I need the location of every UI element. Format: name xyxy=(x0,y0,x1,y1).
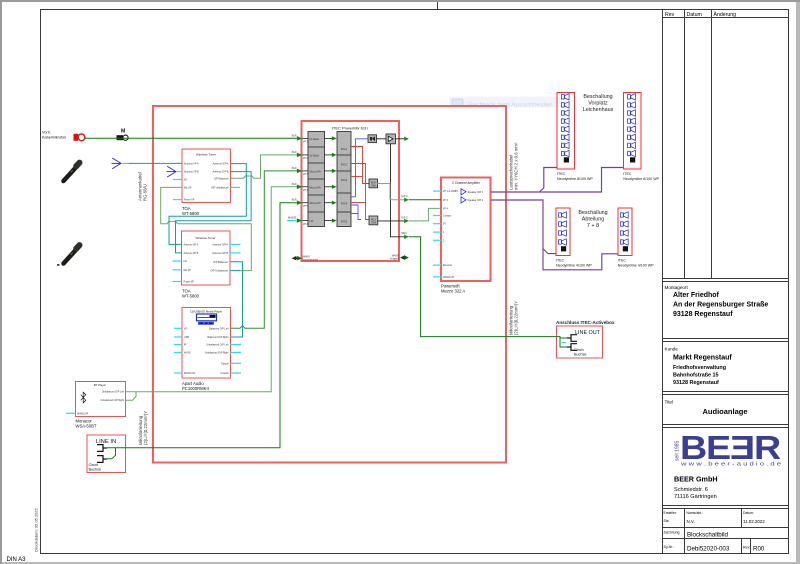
wire C to O/P2 xyxy=(378,184,405,200)
svg-text:MAINS: MAINS xyxy=(303,255,311,258)
svg-text:LINE OUT: LINE OUT xyxy=(575,330,601,336)
svg-text:XLR: XLR xyxy=(292,150,297,154)
svg-text:ITEC PowerMix 6/3 i: ITEC PowerMix 6/3 i xyxy=(332,126,369,131)
MAINS in double arrow xyxy=(294,257,300,259)
svg-text:BT Player: BT Player xyxy=(94,383,106,387)
speaker column LS3 xyxy=(556,208,570,256)
wireless microphone 2 xyxy=(64,245,80,263)
svg-text:Schmiedstr. 6: Schmiedstr. 6 xyxy=(674,487,708,493)
media player Apart box xyxy=(182,308,231,379)
svg-text:XLR: XLR xyxy=(292,133,297,137)
svg-text:Audioanlage: Audioanlage xyxy=(702,407,747,416)
svg-text:ITEC: ITEC xyxy=(556,259,565,263)
svg-text:Beschallung: Beschallung xyxy=(578,210,607,216)
wire speaker O/P1 branch to LS1 xyxy=(540,168,558,193)
svg-text:6x Radio: 6x Radio xyxy=(310,138,320,141)
svg-text:Ausgang: Ausgang xyxy=(390,258,400,261)
svg-text:(2)LiY(0,22mm²)Y: (2)LiY(0,22mm²)Y xyxy=(514,301,519,335)
svg-text:I/P 5: I/P 5 xyxy=(303,205,309,208)
svg-text:CD/USB/SD Media Player: CD/USB/SD Media Player xyxy=(190,310,222,314)
mains stub I/P6 xyxy=(287,220,297,222)
svg-text:Coaxial: Coaxial xyxy=(221,372,229,375)
tuner1 TOA WT-5800 box xyxy=(182,149,231,203)
wire cable mic to mixer I/P1 xyxy=(85,137,297,139)
svg-text:Mezzo 322 A: Mezzo 322 A xyxy=(441,289,465,294)
svg-text:R00: R00 xyxy=(753,546,765,553)
mixer block C RG out xyxy=(369,179,378,188)
svg-text:Beschallung: Beschallung xyxy=(583,94,612,100)
cinch jack 2 xyxy=(97,456,107,463)
svg-text:RG1: RG1 xyxy=(341,147,348,151)
antenna 2 xyxy=(167,166,177,177)
svg-text:Speaker O/P 2: Speaker O/P 2 xyxy=(468,199,484,202)
svg-text:Ersteller:: Ersteller: xyxy=(664,511,677,515)
wire tuner1 balanced to mixer I/P2 xyxy=(231,155,297,178)
svg-text:MAINS: MAINS xyxy=(392,254,400,257)
svg-text:Balanced O/P Left: Balanced O/P Left xyxy=(209,327,229,330)
antenna 2 feed xyxy=(176,171,182,173)
tuner2 TOA WT-5800 box xyxy=(182,231,231,285)
mixer input module column xyxy=(308,132,325,227)
svg-text:MicLinePh: MicLinePh xyxy=(310,170,322,173)
svg-text:ITEC: ITEC xyxy=(557,172,566,176)
svg-text:Contact: Contact xyxy=(443,215,452,218)
svg-text:RG2: RG2 xyxy=(341,163,348,167)
svg-text:93128 Regenstauf: 93128 Regenstauf xyxy=(673,311,733,318)
svg-text:Anschluss ITEC-Activebox: Anschluss ITEC-Activebox xyxy=(556,320,615,325)
fold mark top xyxy=(437,2,439,10)
svg-text:7 + 8: 7 + 8 xyxy=(587,223,599,229)
LINE IN cinch box xyxy=(87,435,126,473)
svg-text:75W: 75W xyxy=(371,221,377,224)
wire LINE IN to mixer I/P5 xyxy=(107,203,297,448)
svg-text:I/P 6: I/P 6 xyxy=(303,223,309,226)
BEER logo xyxy=(680,429,781,466)
svg-text:I/P 3: I/P 3 xyxy=(443,199,449,202)
wire antenna chain B xyxy=(176,172,252,253)
amp port labels xyxy=(443,190,484,279)
svg-text:O/P Balanced: O/P Balanced xyxy=(214,177,229,180)
svg-text:RG5: RG5 xyxy=(341,220,348,224)
mixer block A monitor xyxy=(368,135,377,143)
svg-text:Antenne I/P B: Antenne I/P B xyxy=(184,171,199,174)
svg-text:LIN: LIN xyxy=(310,220,314,223)
svg-text:Titel: Titel xyxy=(665,400,674,405)
speaker column LS1 xyxy=(557,93,575,170)
svg-text:O/P Unbalanced: O/P Unbalanced xyxy=(211,186,229,189)
svg-text:IR: IR xyxy=(184,344,187,347)
label Lautsprecherkabel xyxy=(509,142,519,190)
svg-text:Buchse: Buchse xyxy=(89,468,102,472)
svg-text:N.V.: N.V. xyxy=(687,519,695,524)
svg-text:Datum:: Datum: xyxy=(743,511,754,515)
MAINS out double arrow xyxy=(403,257,407,259)
svg-text:WT-5800: WT-5800 xyxy=(182,294,200,299)
svg-text:I/P 1: I/P 1 xyxy=(303,141,309,144)
svg-text:Netzanbindung: Netzanbindung xyxy=(303,259,319,262)
mixer block B master amp xyxy=(386,134,396,144)
wire B to O/P1 xyxy=(396,138,405,140)
antenna 1 xyxy=(112,158,122,169)
svg-text:O/P 2: O/P 2 xyxy=(401,194,408,198)
svg-text:Vorh.: Vorh. xyxy=(42,131,51,135)
mixer blue net xyxy=(351,139,368,220)
label Mikrofonleitung left xyxy=(138,411,148,445)
svg-text:Datum: Datum xyxy=(687,12,702,18)
svg-text:Montageort: Montageort xyxy=(665,285,689,290)
svg-text:Vorplatz: Vorplatz xyxy=(588,101,608,107)
svg-text:75W: 75W xyxy=(371,184,377,187)
svg-text:5V: 5V xyxy=(443,223,446,226)
svg-text:Markt Regenstauf: Markt Regenstauf xyxy=(673,355,732,362)
svg-text:M: M xyxy=(121,129,125,135)
svg-text:Neodymline 8/100 WP: Neodymline 8/100 WP xyxy=(623,177,659,181)
svg-text:Unbalanced O/P Left: Unbalanced O/P Left xyxy=(102,391,124,394)
svg-text:Zeichnung:: Zeichnung: xyxy=(664,531,681,535)
svg-text:Antenne O/P A: Antenne O/P A xyxy=(213,163,229,166)
svg-text:I/P 2: I/P 2 xyxy=(303,157,309,160)
svg-text:RG-58/U: RG-58/U xyxy=(143,184,148,201)
wire antenna chain A xyxy=(169,164,246,245)
svg-text:XLR: XLR xyxy=(292,198,297,202)
LINE OUT cinch box xyxy=(557,326,603,358)
bottom data table xyxy=(663,509,789,554)
svg-text:An der Regensburger Straße: An der Regensburger Straße xyxy=(673,302,768,309)
mic XLR connector red xyxy=(74,134,85,141)
svg-text:USB: USB xyxy=(184,336,189,339)
svg-text:O/P Balanced: O/P Balanced xyxy=(213,261,228,264)
XLR port labels xyxy=(288,133,297,219)
label Mikrofonleitung right xyxy=(509,301,519,335)
svg-text:I/P 4: I/P 4 xyxy=(303,189,309,192)
svg-text:Änderung: Änderung xyxy=(714,11,737,18)
svg-text:Rev: Rev xyxy=(665,12,675,18)
svg-text:Antenne O/P B: Antenne O/P B xyxy=(212,252,228,255)
svg-text:Optical: Optical xyxy=(221,362,229,365)
svg-text:Bahnhofstraße 15: Bahnhofstraße 15 xyxy=(673,373,719,379)
faint watermark Rechteck zum Ausschneiden xyxy=(449,97,562,109)
BT player Monacor box xyxy=(76,382,126,417)
svg-text:MAINS: MAINS xyxy=(288,216,296,220)
svg-text:Power I/P: Power I/P xyxy=(184,199,195,202)
svg-text:ITEC: ITEC xyxy=(623,172,632,176)
media player front panel icon xyxy=(197,314,217,325)
svg-text:71116 Gärtringen: 71116 Gärtringen xyxy=(674,494,717,500)
wire BT player to mixer I/P4 xyxy=(126,187,297,392)
svg-text:REC: REC xyxy=(402,231,408,235)
svg-text:MAINS I/P: MAINS I/P xyxy=(443,276,455,279)
svg-text:I/O: I/O xyxy=(184,260,187,263)
svg-text:Power I/P: Power I/P xyxy=(184,281,195,284)
amp speaker triangles xyxy=(461,189,466,203)
wire media balanced L to mixer I/P3 xyxy=(231,171,297,328)
svg-text:XLR: XLR xyxy=(292,166,297,170)
zone label Vorplatz xyxy=(583,94,614,113)
svg-text:Neodymline 4/100 WP: Neodymline 4/100 WP xyxy=(618,264,654,268)
cinch jack 1 xyxy=(97,445,107,452)
svg-text:I/P 3: I/P 3 xyxy=(303,173,309,176)
svg-text:Name/abt.:: Name/abt.: xyxy=(687,511,704,515)
svg-text:48-SS: 48-SS xyxy=(184,351,191,354)
svg-text:Unbalanced O/P Right: Unbalanced O/P Right xyxy=(205,351,229,354)
svg-text:I/O: I/O xyxy=(184,327,187,330)
svg-text:Mic I/P: Mic I/P xyxy=(184,269,192,272)
svg-text:Debi52020-003: Debi52020-003 xyxy=(687,546,730,553)
svg-text:2 Channel Amplifier: 2 Channel Amplifier xyxy=(452,181,481,185)
svg-text:BEƎR: BEƎR xyxy=(680,429,781,466)
speaker column LS4 xyxy=(618,208,632,256)
svg-text:Kunde: Kunde xyxy=(665,347,679,352)
svg-text:Antenne I/P B: Antenne I/P B xyxy=(184,252,199,255)
svg-text:Zg-Nr.:: Zg-Nr.: xyxy=(664,545,674,549)
amp cyan stubs xyxy=(433,191,441,277)
wire D to O/P3 xyxy=(378,220,404,222)
svg-text:seit 1985: seit 1985 xyxy=(675,440,681,461)
fold mark left xyxy=(57,264,60,266)
svg-text:WT-5800: WT-5800 xyxy=(182,211,200,216)
svg-text:Antenne O/P A: Antenne O/P A xyxy=(212,243,228,246)
svg-text:I/P 1-2-10dBV: I/P 1-2-10dBV xyxy=(443,190,458,193)
antenna 1 feed xyxy=(121,162,129,164)
module to bus arrows xyxy=(325,136,337,222)
svg-text:Neodymline 8/100 WP: Neodymline 8/100 WP xyxy=(557,177,593,181)
svg-text:Mic I/P: Mic I/P xyxy=(184,186,192,189)
wire mixer O/P2 to amp I/P3 xyxy=(409,199,441,201)
svg-text:2: 2 xyxy=(443,239,445,242)
label Antennenkabel xyxy=(138,172,148,201)
svg-text:RG4: RG4 xyxy=(341,202,348,206)
cinch jack out 1 xyxy=(567,335,577,342)
svg-text:Druckdatum: 05.05.2022: Druckdatum: 05.05.2022 xyxy=(34,507,39,552)
svg-text:ITEC: ITEC xyxy=(618,259,627,263)
svg-text:Leichenhaus: Leichenhaus xyxy=(583,107,614,113)
svg-text:Cinch: Cinch xyxy=(574,348,584,352)
svg-text:BEER GmbH: BEER GmbH xyxy=(674,475,718,484)
svg-text:w w w . b e e r - a u d i o .: w w w . b e e r - a u d i o . d e xyxy=(681,462,781,468)
svg-text:Unbalanced O/P Left: Unbalanced O/P Left xyxy=(206,344,228,347)
svg-text:Neodymline 4/100 WP: Neodymline 4/100 WP xyxy=(556,264,592,268)
svg-text:1: 1 xyxy=(443,231,445,234)
wire speaker O/P2 run xyxy=(491,200,618,270)
mixer U1 ITEC PowerMix box xyxy=(302,121,400,261)
svg-text:min. YY6CH 2 x 0,6 mm²: min. YY6CH 2 x 0,6 mm² xyxy=(514,142,519,190)
svg-text:Abteilung: Abteilung xyxy=(582,217,604,223)
coupler connector xyxy=(117,135,129,140)
wire tuner2 balanced to media R xyxy=(230,262,243,337)
svg-text:Cinch: Cinch xyxy=(89,463,99,467)
svg-text:PC1000RMKII: PC1000RMKII xyxy=(182,386,209,391)
svg-text:Balanced O/P Right: Balanced O/P Right xyxy=(208,336,229,339)
svg-text:I/P 4: I/P 4 xyxy=(443,207,449,210)
svg-text:RG3: RG3 xyxy=(341,178,348,182)
svg-text:Wireless Tuner: Wireless Tuner xyxy=(195,236,215,240)
svg-text:Wireless Tuner: Wireless Tuner xyxy=(196,153,216,157)
svg-text:Friedhofsverwaltung: Friedhofsverwaltung xyxy=(673,365,726,371)
wire B down to REC out xyxy=(391,144,405,237)
wire mixer O/P3 to amp I/P4 xyxy=(409,208,441,221)
svg-text:MicLinePh: MicLinePh xyxy=(310,186,322,189)
wire mixer REC to LINE OUT xyxy=(409,237,567,347)
wireless microphone 1 xyxy=(64,163,80,181)
svg-text:O/P Unbalanced: O/P Unbalanced xyxy=(211,270,229,273)
svg-text:WSA-50BT: WSA-50BT xyxy=(76,424,97,429)
speaker column LS2 xyxy=(623,93,641,170)
svg-text:MAINS I/P: MAINS I/P xyxy=(77,412,89,415)
revision table xyxy=(663,10,789,282)
svg-text:DIN A3: DIN A3 xyxy=(7,557,27,563)
svg-text:MicLinePh: MicLinePh xyxy=(310,202,322,205)
svg-text:93128 Regenstauf: 93128 Regenstauf xyxy=(673,380,719,386)
wire speaker O/P2 branch to LS3 xyxy=(543,249,556,254)
svg-text:I/O: I/O xyxy=(184,179,187,182)
wire A to B xyxy=(377,138,387,140)
svg-text:Rev:: Rev: xyxy=(743,546,750,550)
mixer block D RG out xyxy=(369,216,378,225)
amplifier U2 box xyxy=(441,178,491,282)
svg-text:Buchse: Buchse xyxy=(574,352,587,356)
svg-text:11.02.2022: 11.02.2022 xyxy=(743,519,765,524)
svg-text:Antenne I/P A: Antenne I/P A xyxy=(184,243,199,246)
svg-text:6x Radio: 6x Radio xyxy=(310,154,320,157)
svg-text:Antenne O/P B: Antenne O/P B xyxy=(213,171,229,174)
wire speaker O/P1 run xyxy=(491,168,624,193)
svg-text:Sla:: Sla: xyxy=(664,519,670,523)
cinch jack out 2 xyxy=(567,344,577,351)
svg-text:Rechteck zum Ausschneiden: Rechteck zum Ausschneiden xyxy=(468,102,553,109)
mixer red net xyxy=(351,147,369,220)
svg-text:Alter Friedhof: Alter Friedhof xyxy=(673,292,720,299)
mixer routing column xyxy=(337,132,351,227)
bluetooth symbol xyxy=(81,392,86,403)
wire LINE IN right join xyxy=(107,448,116,459)
svg-text:Ethernet: Ethernet xyxy=(443,264,452,267)
cabinet outline (big red box) xyxy=(153,106,506,463)
wire BT right join xyxy=(126,392,137,401)
svg-text:Speaker O/P 1: Speaker O/P 1 xyxy=(468,191,484,194)
svg-text:Unbalanced O/P Right: Unbalanced O/P Right xyxy=(100,399,124,402)
zone label Abteilung xyxy=(578,210,607,229)
svg-text:(2)LiY(0,22mm²)Y: (2)LiY(0,22mm²)Y xyxy=(143,411,148,445)
svg-text:Kabelmikrofon: Kabelmikrofon xyxy=(42,136,66,140)
svg-text:Blockschaltbild: Blockschaltbild xyxy=(687,532,728,539)
svg-text:MAINS I/P: MAINS I/P xyxy=(184,372,196,375)
svg-text:O/P 3: O/P 3 xyxy=(401,215,408,219)
wire REC branch upper jack xyxy=(560,337,567,339)
svg-text:Antenne I/P A: Antenne I/P A xyxy=(184,163,199,166)
svg-text:XLR: XLR xyxy=(292,182,297,186)
wire tuner2 cascade to tuner1 mic xyxy=(161,187,252,270)
mixer input arrows I/P1-6 xyxy=(297,136,308,223)
